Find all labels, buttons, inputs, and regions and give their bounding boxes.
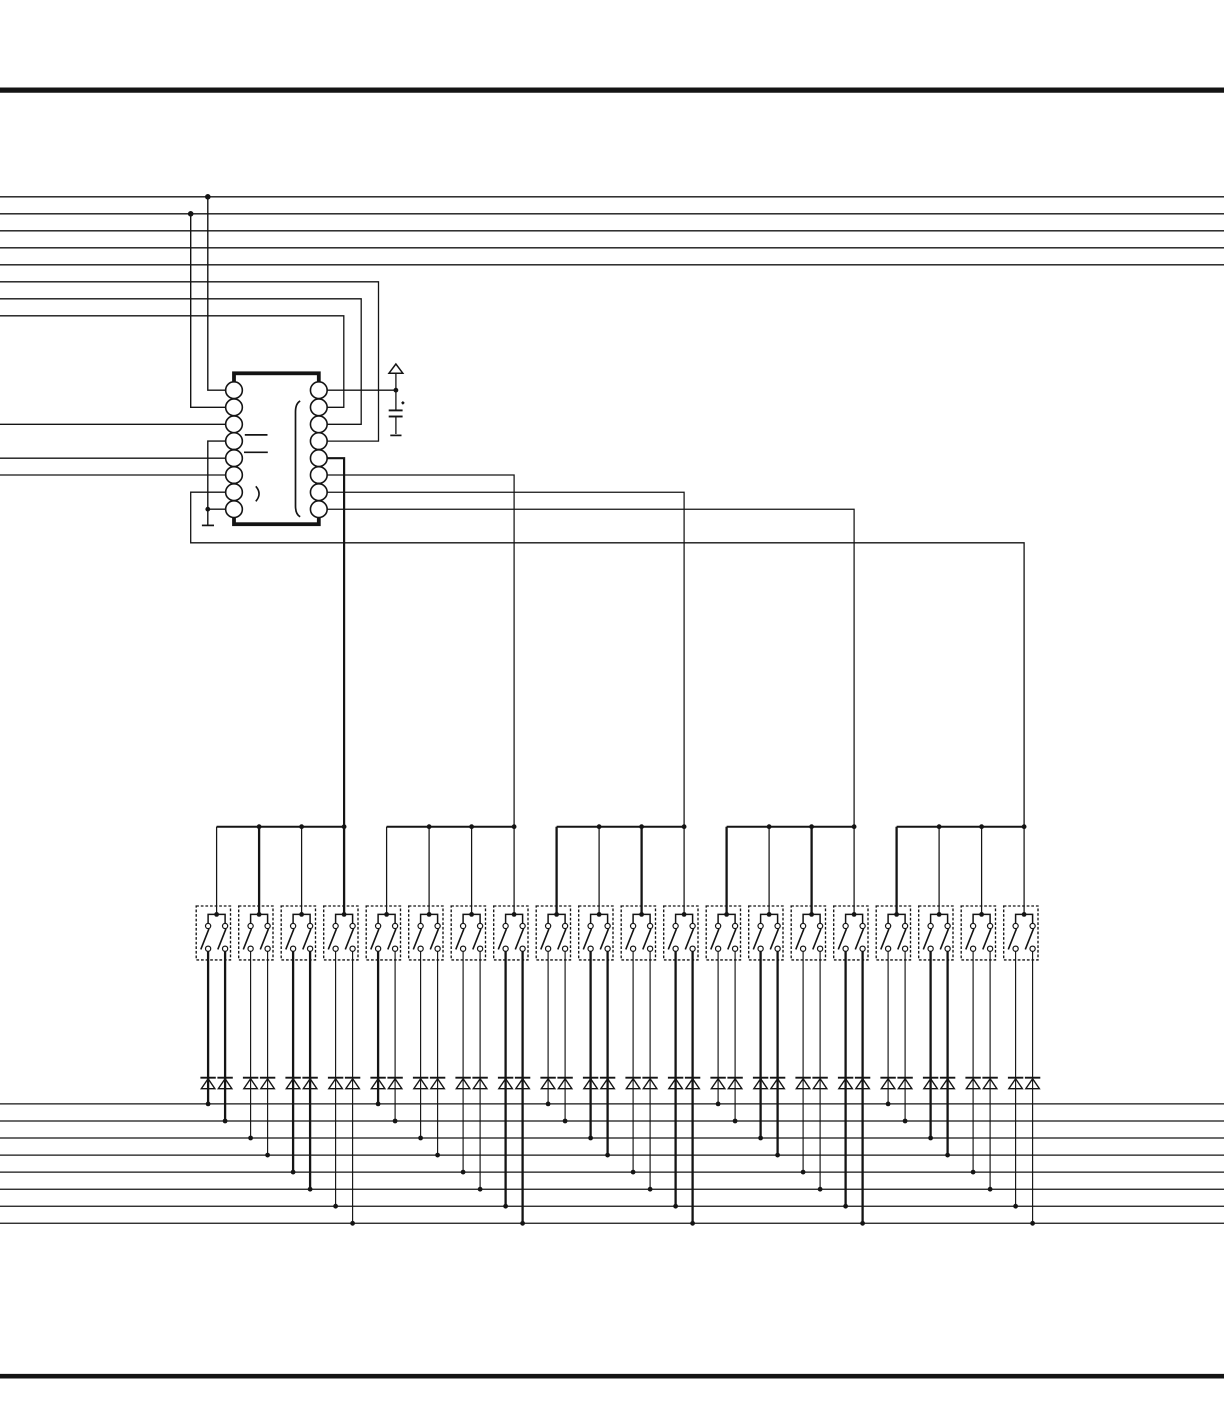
- IC U1 pin 10 (right): [310, 484, 327, 501]
- junction row R8 / S16: [860, 1221, 865, 1226]
- wire S16a through D31 to row line R7: [844, 951, 846, 1206]
- wire S3a through D5 to row line R5: [292, 951, 294, 1172]
- junction row R4 / S10: [605, 1153, 610, 1158]
- key switch S1 (DPST): [196, 906, 230, 960]
- key switch S4 (DPST): [324, 906, 358, 960]
- diode D40: [1025, 1078, 1040, 1089]
- wire S6b through D12 to row line R4: [437, 951, 439, 1155]
- diode D26: [727, 1078, 742, 1089]
- junction row R1 / S9: [546, 1102, 551, 1107]
- wire group 3 bus: [557, 826, 685, 828]
- IC U1 pin 14 (right): [310, 416, 327, 433]
- diode D25: [710, 1078, 725, 1089]
- wire pin 8R route to group 4 bus: [327, 509, 854, 827]
- junction group 1 bus / S3 feed: [299, 824, 304, 829]
- wire feed to switch S4: [343, 827, 345, 915]
- diode D24: [685, 1078, 700, 1089]
- IC U1 pin 15 (right): [310, 399, 327, 416]
- diode D35: [923, 1078, 938, 1089]
- IC U1 pin 2 (left): [226, 399, 243, 416]
- junction group 2 bus / S6 feed: [427, 824, 432, 829]
- wire row line R6 (horizontal, full width): [0, 1188, 1224, 1190]
- wire S4b through D8 to row line R8: [352, 951, 354, 1223]
- wire row line R7 (horizontal, full width): [0, 1205, 1224, 1207]
- IC U1 pin 9 (right): [310, 501, 327, 518]
- diode D15: [498, 1078, 513, 1089]
- junction group 3 bus / S12 feed: [682, 824, 687, 829]
- wire S20a through D39 to row line R7: [1015, 951, 1017, 1206]
- wire S13b through D26 to row line R2: [734, 951, 736, 1121]
- junction pin8L/ground riser: [205, 507, 210, 512]
- junction row R3 / S14: [758, 1136, 763, 1141]
- wire S7b through D14 to row line R6: [479, 951, 481, 1189]
- junction row R5 / S3: [291, 1170, 296, 1175]
- diode D19: [583, 1078, 598, 1089]
- junction row R7 / S12: [673, 1204, 678, 1209]
- diode D32: [855, 1078, 870, 1089]
- junction row R8 / S12: [690, 1221, 695, 1226]
- junction group 1 bus / S2 feed: [257, 824, 262, 829]
- wire pin 4L down to ground: [208, 441, 226, 525]
- junction row R3 / S18: [928, 1136, 933, 1141]
- wire feed to switch S16: [853, 827, 855, 915]
- junction group 5 bus / S19 feed: [979, 824, 984, 829]
- wire feed to switch S14: [768, 827, 770, 915]
- junction row R8 / S4: [350, 1221, 355, 1226]
- wire S1a through D1 to row line R1: [207, 951, 209, 1104]
- diode D22: [642, 1078, 657, 1089]
- wire S5a through D9 to row line R1: [377, 951, 379, 1104]
- wire S19a through D37 to row line R5: [972, 951, 974, 1172]
- wire pin 6R route to group 2 bus: [327, 475, 514, 827]
- wire feed to switch S10: [598, 827, 600, 915]
- key switch S15 (DPST): [791, 906, 825, 960]
- wire column line C3 (horizontal, full width): [0, 230, 1224, 232]
- wire feed to switch S6: [428, 827, 430, 915]
- wire S9a through D17 to row line R1: [547, 951, 549, 1104]
- key switch S16 (DPST): [834, 906, 868, 960]
- capacitor C1 (polarized): [389, 390, 405, 434]
- wire S17b through D34 to row line R2: [904, 951, 906, 1121]
- wire pin 6L to left edge: [0, 474, 226, 476]
- junction row R4 / S6: [435, 1153, 440, 1158]
- diode D7: [328, 1078, 343, 1089]
- wire S14b through D28 to row line R4: [776, 951, 778, 1155]
- junction row R4 / S14: [775, 1153, 780, 1158]
- wire S15a through D29 to row line R5: [802, 951, 804, 1172]
- junction row R7 / S4: [333, 1204, 338, 1209]
- junction group 4 bus / S14 feed: [767, 824, 772, 829]
- diode D2: [217, 1078, 232, 1089]
- wire feed to switch S5: [386, 827, 388, 915]
- junction row R3 / S6: [418, 1136, 423, 1141]
- junction row R6 / S3: [308, 1187, 313, 1192]
- key switch S3 (DPST): [281, 906, 315, 960]
- diode D9: [370, 1078, 385, 1089]
- wire S11a through D21 to row line R5: [632, 951, 634, 1172]
- IC U1 pin 16 (right): [310, 382, 327, 399]
- wire S14a through D27 to row line R3: [759, 951, 761, 1138]
- wire column line C4 (horizontal, full width): [0, 247, 1224, 249]
- IC U1 pin 1 (left): [226, 382, 243, 399]
- wire row line R3 (horizontal, full width): [0, 1137, 1224, 1139]
- junction row R5 / S11: [631, 1170, 636, 1175]
- wire pin 1L riser to line C1: [208, 197, 226, 390]
- diode D34: [897, 1078, 912, 1089]
- diode D5: [285, 1078, 300, 1089]
- IC U1 pin 8 (left): [226, 501, 243, 518]
- diode D33: [880, 1078, 895, 1089]
- diode D17: [540, 1078, 555, 1089]
- key switch S2 (DPST): [239, 906, 273, 960]
- junction group 3 bus / S11 feed: [639, 824, 644, 829]
- wire S1b through D2 to row line R2: [224, 951, 226, 1121]
- junction row R2 / S9: [563, 1119, 568, 1124]
- wire pin 5L to left edge: [0, 457, 226, 459]
- wire S20b through D40 to row line R8: [1032, 951, 1034, 1223]
- IC U1 pin 12 (right): [310, 450, 327, 467]
- key switch S11 (DPST): [621, 906, 655, 960]
- diode D14: [472, 1078, 487, 1089]
- wire S10b through D20 to row line R4: [606, 951, 608, 1155]
- wire row line R5 (horizontal, full width): [0, 1171, 1224, 1173]
- wire column line C6 to pin 4R: [0, 282, 379, 441]
- junction row R6 / S11: [648, 1187, 653, 1192]
- wire S12b through D24 to row line R8: [691, 951, 693, 1223]
- junction on line C1: [205, 194, 211, 200]
- wire S6a through D11 to row line R3: [420, 951, 422, 1138]
- wire feed to switch S12: [683, 827, 685, 915]
- diode D18: [557, 1078, 572, 1089]
- key switch S14 (DPST): [749, 906, 783, 960]
- wire pin 7L long route to group 5 bus: [191, 492, 1024, 827]
- key switch S13 (DPST): [706, 906, 740, 960]
- wire S11b through D22 to row line R6: [649, 951, 651, 1189]
- wire feed to switch S9: [555, 827, 557, 915]
- wire S3b through D6 to row line R6: [309, 951, 311, 1189]
- wire feed to switch S2: [258, 827, 260, 915]
- junction row R7 / S8: [503, 1204, 508, 1209]
- wire feed to switch S11: [640, 827, 642, 915]
- key switch S12 (DPST): [664, 906, 698, 960]
- wire pin 1R to power node: [327, 389, 396, 391]
- diode D8: [345, 1078, 360, 1089]
- junction row R1 / S5: [376, 1102, 381, 1107]
- wire S16b through D32 to row line R8: [861, 951, 863, 1223]
- IC U1 pin 13 (right): [310, 433, 327, 450]
- diode D36: [940, 1078, 955, 1089]
- IC U1 pin 7 (left): [226, 484, 243, 501]
- junction group 4 bus / S15 feed: [809, 824, 814, 829]
- junction row R6 / S19: [988, 1187, 993, 1192]
- junction row R7 / S20: [1013, 1204, 1018, 1209]
- junction group 2 bus / S8 feed: [512, 824, 517, 829]
- junction row R7 / S16: [843, 1204, 848, 1209]
- wire group 2 bus: [387, 826, 514, 828]
- wire group 4 bus: [727, 826, 855, 828]
- diode D4: [260, 1078, 275, 1089]
- wire column line C8 to pin 2R: [0, 316, 344, 408]
- junction row R3 / S10: [588, 1136, 593, 1141]
- diode D23: [668, 1078, 683, 1089]
- ground bar (IC): [202, 524, 214, 526]
- diode D16: [515, 1078, 530, 1089]
- wire S2b through D4 to row line R4: [267, 951, 269, 1155]
- wire feed to switch S19: [981, 827, 983, 915]
- wire column line C7 to pin 3R: [0, 299, 361, 425]
- key switch S8 (DPST): [494, 906, 528, 960]
- junction row R1 / S17: [886, 1102, 891, 1107]
- diode D39: [1008, 1078, 1023, 1089]
- junction row R2 / S1: [223, 1119, 228, 1124]
- key switch S20 (DPST): [1004, 906, 1038, 960]
- IC U1 internal mark: resonator plate 2: [244, 451, 268, 453]
- wire row line R4 (horizontal, full width): [0, 1154, 1224, 1156]
- wire S17a through D33 to row line R1: [887, 951, 889, 1104]
- diode D37: [965, 1078, 980, 1089]
- junction row R5 / S19: [971, 1170, 976, 1175]
- diode D11: [413, 1078, 428, 1089]
- diode D13: [455, 1078, 470, 1089]
- junction on line C2: [188, 211, 194, 217]
- wire group 1 bus: [217, 826, 345, 828]
- junction row R8 / S20: [1030, 1221, 1035, 1226]
- wire row line R8 (horizontal, full width): [0, 1222, 1224, 1224]
- junction row R2 / S5: [393, 1119, 398, 1124]
- diode D3: [243, 1078, 258, 1089]
- wire S7a through D13 to row line R5: [462, 951, 464, 1172]
- diode D27: [753, 1078, 768, 1089]
- key switch S10 (DPST): [579, 906, 613, 960]
- diode D28: [770, 1078, 785, 1089]
- diode D38: [982, 1078, 997, 1089]
- wire S15b through D30 to row line R6: [819, 951, 821, 1189]
- wire row line R2 (horizontal, full width): [0, 1120, 1224, 1122]
- wire feed to switch S15: [810, 827, 812, 915]
- junction power node: [394, 388, 399, 393]
- junction row R6 / S15: [818, 1187, 823, 1192]
- junction group 5 bus / S18 feed: [937, 824, 942, 829]
- diode D12: [430, 1078, 445, 1089]
- key switch S9 (DPST): [536, 906, 570, 960]
- diode D10: [387, 1078, 402, 1089]
- wire feed to switch S7: [471, 827, 473, 915]
- junction row R5 / S7: [461, 1170, 466, 1175]
- key switch S7 (DPST): [451, 906, 485, 960]
- junction group 3 bus / S10 feed: [597, 824, 602, 829]
- junction row R8 / S8: [520, 1221, 525, 1226]
- junction row R4 / S18: [945, 1153, 950, 1158]
- diode D21: [625, 1078, 640, 1089]
- wire feed to switch S20: [1023, 827, 1025, 915]
- junction row R3 / S2: [248, 1136, 253, 1141]
- wire feed to switch S13: [725, 827, 727, 915]
- junction group 5 bus / S20 feed: [1022, 824, 1027, 829]
- wire feed to switch S3: [301, 827, 303, 915]
- junction row R4 / S2: [265, 1153, 270, 1158]
- wire pin 5R route to group 1 bus (bold): [327, 458, 344, 827]
- junction row R1 / S1: [206, 1102, 211, 1107]
- IC U1 internal mark: small right-paren arc: [256, 486, 259, 501]
- diode D29: [795, 1078, 810, 1089]
- junction group 2 bus / S7 feed: [469, 824, 474, 829]
- IC U1 pin 5 (left): [226, 450, 243, 467]
- wire S12a through D23 to row line R7: [674, 951, 676, 1206]
- wire column line C1 (horizontal, full width): [0, 196, 1224, 198]
- diode D6: [302, 1078, 317, 1089]
- wire feed to switch S1: [216, 827, 218, 915]
- wire S18a through D35 to row line R3: [929, 951, 931, 1138]
- wire S18b through D36 to row line R4: [946, 951, 948, 1155]
- wire pin 8L stub: [208, 508, 226, 510]
- diode D30: [812, 1078, 827, 1089]
- wire feed to switch S8: [513, 827, 515, 915]
- IC U1 pin 3 (left): [226, 416, 243, 433]
- wire S13a through D25 to row line R1: [717, 951, 719, 1104]
- wire feed to switch S18: [938, 827, 940, 915]
- wire S5b through D10 to row line R2: [394, 951, 396, 1121]
- wire S19b through D38 to row line R6: [989, 951, 991, 1189]
- key switch S19 (DPST): [961, 906, 995, 960]
- IC U1 pin 6 (left): [226, 467, 243, 484]
- junction group 4 bus / S16 feed: [852, 824, 857, 829]
- wire column line C2 (horizontal, full width): [0, 213, 1224, 215]
- IC U1 pin 4 (left): [226, 433, 243, 450]
- key switch S5 (DPST): [366, 906, 400, 960]
- wire pin 3L to left edge: [0, 423, 226, 425]
- diode D31: [838, 1078, 853, 1089]
- wire pin 2L riser to line C2: [191, 214, 226, 407]
- key switch S17 (DPST): [876, 906, 910, 960]
- ground bar (capacitor): [390, 434, 401, 436]
- junction row R6 / S7: [478, 1187, 483, 1192]
- wire S2a through D3 to row line R3: [250, 951, 252, 1138]
- key switch S6 (DPST): [409, 906, 443, 960]
- wire pin 7R route to group 3 bus: [327, 492, 684, 827]
- wire S10a through D19 to row line R3: [589, 951, 591, 1138]
- wire row line R1 (horizontal, full width): [0, 1103, 1224, 1105]
- junction row R2 / S17: [903, 1119, 908, 1124]
- op-amp / controller IC U1 body: [234, 373, 319, 524]
- IC U1 internal mark: resonator plate 1: [245, 434, 268, 436]
- wire column line C5 (horizontal, full width): [0, 264, 1224, 266]
- power symbol (triangle): [389, 364, 403, 390]
- IC U1 pin 11 (right): [310, 467, 327, 484]
- wire feed to switch S17: [895, 827, 897, 915]
- wire S8a through D15 to row line R7: [504, 951, 506, 1206]
- key switch S18 (DPST): [919, 906, 953, 960]
- diode D20: [600, 1078, 615, 1089]
- junction row R2 / S13: [733, 1119, 738, 1124]
- wire S8b through D16 to row line R8: [521, 951, 523, 1223]
- diode D1: [200, 1078, 215, 1089]
- wire group 5 bus: [897, 826, 1025, 828]
- wire S9b through D18 to row line R2: [564, 951, 566, 1121]
- IC U1 internal mark: tall left-paren arc: [296, 401, 301, 517]
- wire S4a through D7 to row line R7: [335, 951, 337, 1206]
- junction group 1 bus / S4 feed: [342, 824, 347, 829]
- junction row R1 / S13: [716, 1102, 721, 1107]
- junction row R5 / S15: [801, 1170, 806, 1175]
